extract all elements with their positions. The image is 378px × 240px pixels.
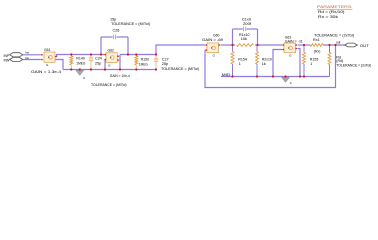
op-amp G60: [207, 43, 219, 53]
op-amp G63 input stubs: [282, 45, 284, 50]
pin dot G61 in-: [41, 59, 43, 61]
label R149: [76, 56, 85, 60]
value label 1MEG of R150: [139, 62, 148, 66]
label R155: [310, 57, 319, 61]
wire: C26 feedback left leg: [100, 37, 102, 55]
junction: R149 bottom: [70, 68, 72, 70]
resistor R150: [135, 55, 138, 70]
op-amp G60 label: [213, 34, 220, 38]
label C24: [95, 56, 102, 60]
value label 1 of R155: [310, 62, 312, 66]
svg-text:Inn: Inn: [25, 56, 30, 60]
wire: riser from C27 node to second stage: [156, 45, 205, 55]
pin dot G62 out-: [117, 59, 119, 61]
resistor R1x10: [237, 44, 254, 47]
svg-text:MID: MID: [222, 73, 231, 77]
op-amp G63 pin label G: [289, 53, 292, 57]
junction: C26 right leg on wire B: [127, 53, 129, 55]
capacitor C27: [154, 55, 158, 70]
svg-text:GAIN = -69: GAIN = -69: [202, 38, 223, 42]
svg-text:G: G: [289, 53, 292, 57]
svg-text:G: G: [108, 64, 111, 68]
value label (Rd) of Rd: [336, 59, 343, 63]
wire: riser MID to G63 lower input: [273, 50, 282, 77]
capacitor C24: [89, 55, 93, 70]
op-amp G62: [106, 53, 117, 63]
port INP: [10, 53, 23, 57]
junction: C24 top: [90, 53, 92, 55]
svg-text:R150: R150: [141, 57, 150, 61]
tolerance note of C27: [161, 67, 199, 71]
op-amp G60 input stubs: [205, 45, 207, 50]
svg-text:GAIN = 1.3e-4: GAIN = 1.3e-4: [31, 70, 61, 74]
junction: G62 lower output rail: [119, 68, 121, 70]
net label Inn: [25, 56, 30, 60]
svg-text:0: 0: [290, 81, 292, 85]
net label MID: [222, 73, 231, 77]
op-amp G62 label: [108, 49, 115, 53]
op-amp G62 pin label G: [108, 64, 111, 68]
svg-text:G: G: [213, 53, 216, 57]
svg-text:Rx = 30k: Rx = 30k: [318, 15, 338, 19]
svg-text:1MEG: 1MEG: [76, 61, 85, 65]
op-amp G61: [44, 52, 55, 62]
ground: [76, 70, 84, 75]
pin dot G63 out: [295, 44, 297, 46]
resistor R154: [231, 45, 234, 77]
svg-text:(Rd): (Rd): [336, 59, 343, 63]
svg-text:INN: INN: [4, 59, 10, 63]
wire: G63 lower output to MID rail: [298, 49, 300, 77]
op-amp G63 output stubs: [296, 45, 299, 49]
pin dot G62 out: [117, 55, 119, 57]
svg-text:15p: 15p: [110, 17, 116, 21]
node: output label OUT: [360, 44, 370, 48]
op-amp G62 output stubs: [118, 56, 121, 60]
wire: C1x9 feedback top left: [233, 28, 243, 30]
wire: Rx1 to OUT port: [323, 44, 345, 46]
tolerance note bottom left: [91, 83, 127, 87]
pin dot G63 out-: [295, 48, 297, 50]
junction: loop riser on out wire: [334, 44, 336, 46]
value label 1MEG of R149: [76, 61, 85, 65]
label Rx1: [313, 38, 320, 42]
tolerance note of Rd: [336, 64, 371, 68]
wire: C1x9 feedback top right: [247, 28, 258, 30]
svg-text:C27: C27: [162, 57, 169, 61]
svg-text:1MEG: 1MEG: [139, 62, 148, 66]
junction: R150 bottom: [135, 68, 137, 70]
svg-text:R149: R149: [76, 56, 85, 60]
gain label of G62: [110, 74, 130, 78]
capacitor C26: [113, 35, 115, 39]
gain label of G63: [285, 39, 303, 43]
junction: R2x10 bottom: [256, 75, 258, 77]
value label 1 of R154: [239, 62, 241, 66]
tolerance note of Rx1: [314, 34, 354, 38]
svg-text:OUT: OUT: [360, 44, 370, 48]
junction: R150 top: [135, 53, 137, 55]
svg-text:C26: C26: [113, 28, 120, 32]
gain label of G61: [31, 70, 61, 74]
parameters title underline: [317, 8, 353, 10]
junction: R155 bottom: [303, 75, 305, 77]
svg-text:1: 1: [239, 62, 241, 66]
op-amp G63: [284, 43, 296, 53]
parameter Rd: [318, 10, 345, 14]
svg-text:25p: 25p: [162, 62, 168, 66]
svg-text:0: 0: [83, 76, 85, 80]
wire: G60 lower input long loop to output net: [205, 45, 336, 88]
label R2x10: [262, 57, 272, 61]
junction: R155 top: [303, 44, 305, 46]
op-amp G60 output stub: [219, 44, 222, 46]
svg-text:(Rx): (Rx): [314, 50, 321, 54]
capacitor C1x9: [244, 27, 246, 31]
op-amp G61 label: [44, 48, 51, 52]
node: input label INN: [4, 59, 10, 63]
op-amp G61 input stubs: [41, 55, 43, 60]
svg-text:TOLERANCE = (2xTol): TOLERANCE = (2xTol): [314, 34, 354, 38]
pin dot G60 in-: [206, 49, 208, 51]
svg-text:G: G: [46, 63, 49, 67]
junction: C27 bottom: [155, 68, 157, 70]
wire: C26 feedback top left: [101, 36, 113, 38]
pin dot G60 out: [218, 44, 220, 46]
tolerance note of C26: [111, 22, 150, 26]
resistor Rd: [328, 45, 331, 77]
junction: Rd top: [328, 44, 330, 46]
label C1x9: [242, 17, 251, 21]
value label (Rx) of Rx1: [314, 50, 321, 54]
value label 1k of R2x10: [262, 62, 266, 66]
wire: G63 out to Rx1: [298, 44, 310, 46]
svg-text:Ins: Ins: [25, 50, 30, 54]
resistor R2x10: [256, 45, 259, 77]
wire: MID rail: [221, 76, 330, 78]
svg-text:Rd = (Rx/10): Rd = (Rx/10): [318, 10, 345, 14]
svg-text:1k: 1k: [262, 62, 266, 66]
value label 25p of C24: [95, 61, 101, 65]
net label out: [336, 41, 341, 45]
svg-text:GAIN = -11: GAIN = -11: [285, 39, 303, 43]
svg-text:TOLERANCE = (M/Tol): TOLERANCE = (M/Tol): [91, 83, 127, 87]
svg-text:TOLERANCE = (2xTol): TOLERANCE = (2xTol): [336, 64, 371, 68]
wire: left ground rail: [63, 69, 157, 71]
wire: INP port to G61 +in: [23, 54, 41, 56]
ground right: [282, 77, 290, 82]
junction: C26 left leg: [100, 53, 102, 55]
gain label of G60: [202, 38, 223, 42]
label R154: [238, 57, 247, 61]
pin dot G63 in+: [283, 44, 285, 46]
pin dot G62 in-: [105, 59, 107, 61]
ground right net label 0: [290, 81, 292, 85]
value label 15p of C26: [110, 17, 116, 21]
junction: R149 top: [70, 53, 72, 55]
parameter Rx: [318, 15, 338, 19]
svg-text:G60: G60: [213, 34, 220, 38]
label C26: [113, 28, 120, 32]
svg-text:R154: R154: [238, 57, 247, 61]
label R150: [141, 57, 150, 61]
junction: right ground tap: [284, 75, 286, 77]
value label 10k of R1x10: [241, 37, 247, 41]
value label 25p of C27: [162, 62, 168, 66]
wire: C1x9 feedback left leg: [232, 29, 234, 45]
label R1x10: [239, 33, 250, 37]
svg-text:C24: C24: [95, 56, 102, 60]
wire: G60 out to R1x10: [221, 44, 235, 46]
value label 200f of C1x9: [243, 22, 252, 26]
pin dot G62 in+: [105, 54, 107, 56]
op-amp G63 label: [285, 35, 292, 39]
pin dot G61 in+: [41, 54, 43, 56]
wire: INN port to G61 -in: [23, 59, 41, 61]
resistor Rx1: [310, 44, 323, 47]
pin dot G61 out: [55, 56, 57, 58]
label C27: [162, 57, 169, 61]
svg-text:200f: 200f: [243, 22, 252, 26]
svg-text:TOLERANCE = (M/Tol): TOLERANCE = (M/Tol): [161, 67, 199, 71]
ground net label 0: [83, 76, 85, 80]
svg-text:GAIN = 10e-4: GAIN = 10e-4: [110, 74, 130, 78]
svg-text:out: out: [336, 41, 341, 45]
wire: G62 output riser: [119, 55, 121, 70]
net label Ins: [25, 50, 30, 54]
junction: node R1x10 right: [256, 44, 258, 46]
junction: C27 node: [155, 53, 157, 55]
port INN: [10, 57, 23, 61]
svg-text:G62: G62: [108, 49, 115, 53]
node: input label INP: [4, 54, 10, 58]
junction: R154 bottom: [231, 75, 233, 77]
svg-text:Rx1: Rx1: [313, 38, 320, 42]
svg-text:C1x9: C1x9: [242, 17, 251, 21]
label Rd: [336, 56, 341, 60]
resistor R149: [70, 55, 73, 70]
pin dot G60 in+: [206, 44, 208, 46]
resistor R155: [303, 45, 306, 77]
svg-text:R2x10: R2x10: [262, 57, 272, 61]
wire: C26 feedback top right: [116, 36, 128, 38]
parameters title: [317, 4, 353, 9]
svg-text:PARAMETERS:: PARAMETERS:: [317, 4, 353, 9]
wire: G62 lower input to ground rail: [104, 60, 106, 70]
wire: G61 lower output to ground rail: [55, 60, 63, 70]
junction: node R1x10 left: [231, 44, 233, 46]
svg-text:INP: INP: [4, 54, 10, 58]
junction: G63 lower output on MID rail: [299, 75, 301, 77]
svg-text:10k: 10k: [241, 37, 247, 41]
wire: R1x10 right to G63: [255, 44, 282, 46]
op-amp G60 pin label G: [213, 53, 216, 57]
port OUT: [345, 43, 358, 47]
svg-text:R155: R155: [310, 57, 319, 61]
svg-text:1: 1: [310, 62, 312, 66]
wire: G62 output to C27 node: [120, 54, 156, 56]
svg-text:G61: G61: [44, 48, 51, 52]
junction: ground tap: [79, 68, 81, 70]
svg-text:TOLERANCE = (M/Tol): TOLERANCE = (M/Tol): [111, 22, 150, 26]
svg-text:25p: 25p: [95, 61, 101, 65]
wire: C26 feedback right leg: [127, 37, 129, 55]
junction: riser on MID rail: [272, 75, 274, 77]
junction: G62 -in rail: [104, 68, 106, 70]
wire: C1x9 feedback right leg: [257, 29, 259, 45]
junction: C24 bottom: [90, 68, 92, 70]
wire: G61 output up-elbow to node A: [55, 55, 105, 57]
op-amp G62 input stubs: [104, 55, 106, 60]
pin dot G63 in-: [283, 49, 285, 51]
op-amp G61 pin label G: [46, 63, 49, 67]
